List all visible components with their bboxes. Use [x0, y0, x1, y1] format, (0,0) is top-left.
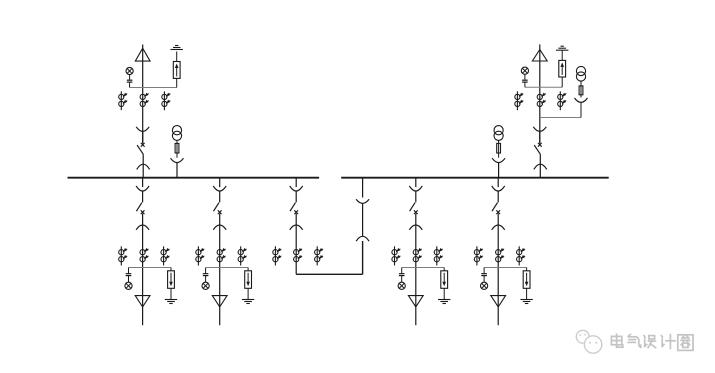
drawout contact (TV2) — [492, 158, 505, 162]
CT a (feeder 2) — [196, 246, 205, 265]
wire (tee to arrester, feeder 4) — [526, 268, 528, 271]
cable termination triangle (feeder 3) — [408, 296, 423, 307]
incoming line 2 conductor — [539, 44, 541, 143]
wire (riser to bus W2) — [362, 178, 364, 198]
circuit breaker QF2 blade — [534, 145, 540, 154]
ground (below arrester, feeder 2) — [242, 300, 254, 304]
CT a (feeder 4) — [474, 246, 483, 265]
circuit breaker contact x (feeder 2) — [218, 210, 222, 214]
CT b (feeder 1) — [140, 248, 149, 262]
wire (contact to blade, feeder 1) — [142, 191, 144, 202]
indicator lamp (feeder 4) — [481, 282, 488, 289]
watermark text dian-qi-she-ji-quan — [611, 334, 693, 350]
ground (below arrester, feeder 3) — [438, 300, 450, 304]
wire (capacitor to tee, incoming 2) — [524, 82, 526, 87]
drawout contact (feeder 1 lower) — [136, 225, 149, 230]
cable termination triangle (feeder 1) — [135, 296, 150, 307]
CT b (feeder 4) — [496, 248, 505, 262]
drawout contact (incoming 2 upper) — [533, 127, 546, 132]
CT a (feeder 3) — [392, 246, 401, 265]
wire (bus to contact, feeder 4) — [497, 178, 499, 187]
feeder conductor (feeder 4) — [497, 214, 499, 326]
capacitor divider (feeder 3) — [399, 274, 405, 276]
wire (tie riser) — [362, 241, 364, 274]
wire (TV2 to bus W2) — [498, 163, 500, 178]
wire (lamp/arrester tee, feeder 3) — [402, 267, 445, 269]
wire (capacitor to tee) — [129, 82, 131, 87]
bus W2 (right section busbar) — [341, 177, 609, 179]
tie conductor — [295, 214, 297, 275]
wire (contact to breaker) — [142, 131, 144, 143]
capacitor divider (feeder 2) — [203, 274, 209, 276]
cable termination triangle (incoming 1) — [135, 48, 150, 61]
feeder conductor (feeder 1) — [142, 214, 144, 326]
circuit breaker QF2 contact x — [538, 143, 542, 147]
fuse FU1 — [175, 143, 179, 153]
bus tie breaker blade — [290, 203, 296, 212]
tie CT a — [273, 246, 282, 265]
indicator lamp (feeder 2) — [202, 282, 209, 289]
CT c (feeder 4) — [517, 246, 525, 265]
ground (above arrester F2) — [556, 46, 568, 50]
wire (bus to contact, feeder 2) — [219, 178, 221, 187]
wire (arrester to ground, feeder 3) — [443, 288, 445, 299]
wire (TV2 to fuse) — [498, 140, 500, 157]
wire (arrester F2 to ground) — [561, 50, 563, 60]
drawout contact (feeder 2 lower) — [213, 225, 226, 230]
surge arrester (feeder 1) — [168, 271, 175, 289]
watermark logo (chat bubbles) — [576, 330, 602, 353]
tie CT b — [294, 248, 303, 262]
ground (below arrester, feeder 4) — [520, 300, 532, 304]
wire (tee to arrester, feeder 3) — [443, 268, 445, 271]
wire (tee to arrester, feeder 2) — [247, 268, 249, 271]
wire (capacitor to lamp, feeder 2) — [205, 276, 207, 283]
CT b (feeder 2) — [217, 248, 226, 262]
wire (TV3 drop) — [580, 102, 582, 117]
wire (capacitor to lamp, feeder 1) — [128, 276, 130, 283]
indicator lamp (incoming 2) — [521, 67, 528, 74]
capacitor divider (feeder 1) — [126, 274, 132, 276]
wire (contact to blade, feeder 3) — [415, 191, 417, 202]
indicator lamp (feeder 1) — [125, 282, 132, 289]
cable termination triangle (feeder 4) — [491, 296, 506, 307]
surge arrester (feeder 2) — [245, 271, 252, 289]
circuit breaker blade (feeder 1) — [136, 203, 142, 212]
drawout contact (incoming 2 lower) — [534, 164, 547, 169]
wire (TV1 to fuse) — [176, 140, 178, 157]
wire (lamp/arrester tee, incoming 1) — [130, 87, 177, 89]
voltage transformer TV2 — [494, 126, 503, 141]
wire (arrester to ground, feeder 2) — [247, 288, 249, 299]
circuit breaker contact x (feeder 3) — [414, 210, 418, 214]
cable termination triangle (incoming 2) — [532, 50, 547, 62]
wire (breaker to bus W2) — [539, 154, 541, 178]
wire (lamp/arrester tee, feeder 4) — [484, 267, 526, 269]
wire (lamp stub) — [129, 75, 131, 81]
cable termination triangle (feeder 2) — [212, 296, 227, 307]
wire (TV3 to fuse) — [580, 81, 582, 98]
wire (arrester drop, incoming 2) — [561, 77, 563, 87]
wire (bus to contact, feeder 1) — [142, 178, 144, 187]
indicator lamp (feeder 3) — [398, 282, 405, 289]
wire (TV1 to bus W1) — [176, 163, 178, 178]
wire (arrester to ground, feeder 4) — [526, 288, 528, 299]
CT c (feeder 2) — [238, 246, 247, 265]
wire (arrester to ground) — [176, 52, 178, 62]
circuit breaker blade (feeder 4) — [492, 203, 498, 212]
surge arrester (feeder 3) — [441, 271, 448, 289]
drawout contact (tie upper) — [290, 186, 303, 191]
CT 2a (left) — [515, 91, 523, 110]
CT b (feeder 3) — [413, 248, 422, 262]
drawout contact (feeder 1 upper) — [136, 186, 149, 191]
drawout contact (feeder 4 lower) — [492, 225, 505, 230]
ground (below arrester, feeder 1) — [165, 300, 177, 304]
circuit breaker blade (feeder 3) — [410, 203, 416, 212]
wire (capacitor to lamp, feeder 4) — [483, 276, 485, 283]
wire (station transformer tee) — [540, 117, 581, 119]
drawout contact (feeder 3 upper) — [409, 186, 422, 191]
surge arrester F2 — [559, 60, 566, 77]
CT 2b (on line) — [537, 93, 546, 107]
wire (tee to arrester, feeder 1) — [170, 268, 172, 271]
capacitor divider (incoming 2) — [522, 80, 528, 82]
wire (lamp/arrester tee, feeder 1) — [129, 267, 172, 269]
circuit breaker QF1 blade — [137, 145, 143, 154]
wire (arrester drop, incoming 1) — [176, 78, 178, 87]
surge arrester (feeder 4) — [523, 271, 530, 289]
circuit breaker contact x (feeder 1) — [141, 210, 145, 214]
wire (capacitor to lamp, feeder 3) — [401, 276, 403, 283]
CT a (feeder 1) — [119, 246, 127, 265]
CT 1b (on line) — [140, 93, 149, 107]
drawout contact (tie lower) — [290, 225, 303, 230]
fuse FU3 — [579, 86, 583, 95]
drawout contact (feeder 2 upper) — [213, 186, 226, 191]
bus tie breaker contact x — [294, 210, 298, 214]
circuit breaker contact x (feeder 4) — [496, 210, 500, 214]
incoming line 1 conductor — [142, 45, 144, 144]
drawout contact (riser upper) — [356, 199, 369, 203]
bus W1 (left section busbar) — [68, 177, 320, 179]
wire (riser middle) — [362, 203, 364, 236]
wire (contact to blade, feeder 2) — [219, 191, 221, 202]
drawout contact (riser lower) — [356, 236, 369, 241]
capacitor divider (incoming 1) — [127, 80, 133, 82]
CT 2c (right) — [558, 91, 567, 110]
wire (breaker to bus W1) — [142, 154, 144, 178]
CT c (feeder 1) — [161, 246, 170, 265]
indicator lamp (incoming 1) — [126, 67, 133, 74]
wire (tee to capacitor, feeder 1) — [128, 268, 130, 274]
feeder conductor (feeder 2) — [219, 214, 221, 326]
wire (tee to capacitor, feeder 3) — [401, 268, 403, 274]
wire (contact to blade, feeder 4) — [497, 191, 499, 202]
drawout contact (incoming 1 lower) — [137, 164, 150, 169]
wire (lamp/arrester tee, incoming 2) — [525, 86, 562, 88]
drawout contact (feeder 3 lower) — [409, 225, 422, 230]
wire (contact to breaker, incoming 2) — [539, 131, 541, 143]
drawout contact (TV1) — [171, 158, 184, 162]
CT c (feeder 3) — [434, 246, 443, 265]
wire (lamp stub, incoming 2) — [524, 74, 526, 80]
drawout contact (feeder 4 upper) — [492, 186, 505, 191]
drawout contact (TV3) — [575, 98, 588, 102]
fuse FU2 — [497, 143, 501, 153]
circuit breaker QF1 contact x — [141, 143, 145, 147]
wire (tie contact to blade) — [295, 191, 297, 202]
feeder conductor (feeder 3) — [415, 214, 417, 326]
wire (bus to contact, feeder 3) — [415, 178, 417, 187]
wire (tee to capacitor, feeder 2) — [205, 268, 207, 274]
wire (tee to capacitor, feeder 4) — [483, 268, 485, 274]
wire (lamp/arrester tee, feeder 2) — [206, 267, 249, 269]
tie CT c — [315, 246, 324, 265]
CT 1c (right) — [162, 91, 171, 110]
surge arrester F1 — [173, 62, 180, 79]
drawout contact (incoming 1 upper) — [136, 127, 149, 132]
CT 1a (left) — [119, 91, 127, 110]
wire (bus W1 to tie contact) — [295, 178, 297, 187]
station transformer TV3 — [576, 66, 585, 81]
wire (arrester to ground, feeder 1) — [170, 288, 172, 299]
wire (tie horizontal run) — [296, 273, 362, 275]
voltage transformer TV1 — [172, 126, 181, 141]
circuit breaker blade (feeder 2) — [214, 203, 220, 212]
capacitor divider (feeder 4) — [481, 274, 487, 276]
ground (above arrester F1) — [171, 46, 183, 50]
